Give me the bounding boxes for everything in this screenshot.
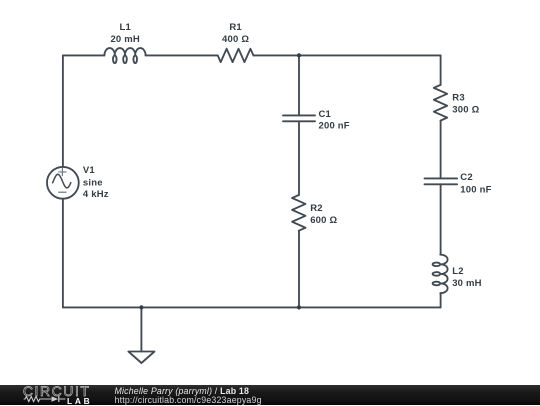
svg-text:R3: R3 (452, 93, 465, 104)
junction dot R2 bottom (297, 305, 301, 309)
wire R1 to node A and top-right corner (254, 54, 441, 56)
wire node A to C1 (298, 55, 300, 115)
ground triangle (128, 352, 154, 364)
footer line 1 (115, 386, 250, 396)
inductor L2 coil (433, 255, 448, 294)
capacitor C1 plates (283, 115, 315, 121)
svg-text:L2: L2 (452, 266, 464, 277)
svg-text:C1: C1 (319, 109, 332, 120)
V1 sine wave (53, 174, 71, 188)
V1 minus sign (59, 191, 66, 193)
svg-text:4 kHz: 4 kHz (83, 189, 109, 200)
wire C2 to L2 (440, 184, 442, 254)
svg-text:20 mH: 20 mH (110, 34, 140, 45)
logo text LAB (67, 396, 92, 406)
svg-text:300 Ω: 300 Ω (452, 105, 479, 116)
svg-text:C2: C2 (460, 172, 473, 183)
junction dot ground node (139, 305, 143, 309)
svg-text:100 nF: 100 nF (460, 185, 491, 196)
resistor R1 zigzag (218, 49, 254, 62)
wire L2 to bottom-right corner (440, 293, 442, 307)
wire bottom rail (63, 306, 441, 308)
svg-text:600 Ω: 600 Ω (310, 215, 337, 226)
resistor R3 zigzag (434, 85, 447, 121)
footer bar (0, 385, 540, 406)
svg-text:R2: R2 (310, 203, 323, 214)
footer line 2 (115, 395, 262, 405)
wire left rail lower (V1 to bottom corner) (62, 199, 64, 308)
inductor L1 coil (104, 48, 145, 63)
CircuitLab logo text CIRCUIT (0, 385, 110, 406)
node A junction dot (top) (297, 53, 301, 57)
wire R2 to bottom node (298, 231, 300, 308)
ground stem wire (140, 307, 142, 351)
wire C1 to R2 (298, 121, 300, 195)
wire R3 to C2 (440, 121, 442, 179)
svg-text:R1: R1 (229, 22, 242, 33)
wire left rail upper (top corner to V1) (62, 55, 64, 166)
svg-text:L1: L1 (119, 22, 131, 33)
wire between L1 and R1 (146, 54, 218, 56)
wire right rail top corner to R3 (440, 55, 442, 85)
svg-text:200 nF: 200 nF (319, 121, 350, 132)
svg-text:30 mH: 30 mH (452, 278, 482, 289)
svg-text:400 Ω: 400 Ω (222, 34, 249, 45)
svg-text:V1: V1 (83, 165, 96, 176)
resistor R2 zigzag (292, 195, 305, 231)
logo zigzag + diode glyph (23, 393, 69, 405)
svg-text:sine: sine (83, 177, 103, 188)
voltage source V1 circle (47, 167, 79, 199)
V1 plus sign (59, 168, 66, 176)
wire top-left segment (63, 54, 105, 56)
capacitor C2 plates (425, 178, 458, 184)
